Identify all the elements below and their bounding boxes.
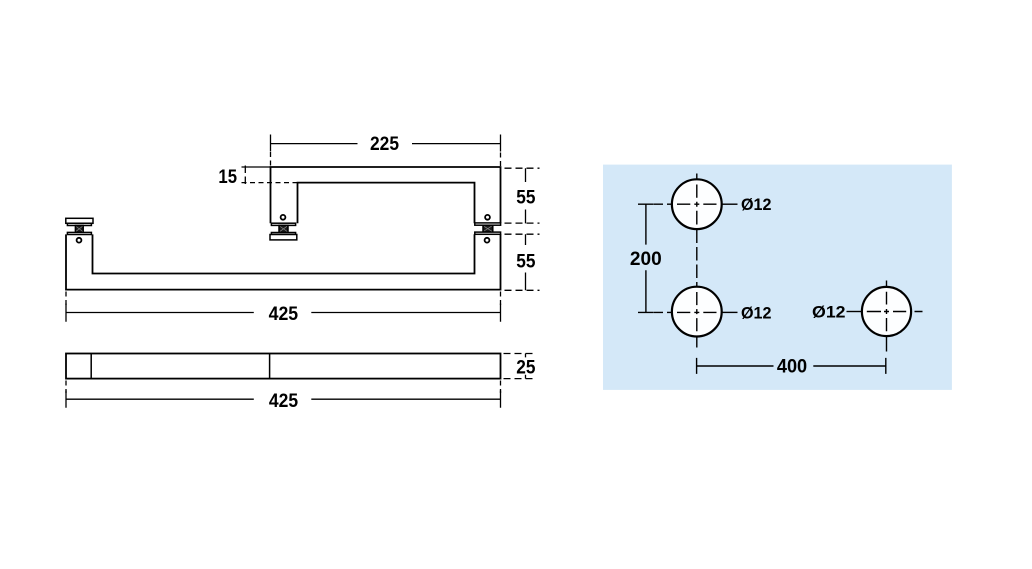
svg-text:425: 425 <box>269 390 298 412</box>
svg-text:55: 55 <box>516 186 535 208</box>
svg-text:Ø12: Ø12 <box>741 303 772 322</box>
svg-text:Ø12: Ø12 <box>741 195 772 214</box>
svg-text:Ø12: Ø12 <box>812 302 846 321</box>
svg-text:400: 400 <box>777 356 807 378</box>
svg-text:25: 25 <box>516 356 535 378</box>
svg-text:200: 200 <box>630 248 662 270</box>
svg-text:225: 225 <box>370 133 399 155</box>
svg-text:425: 425 <box>269 303 299 325</box>
svg-text:55: 55 <box>516 251 535 273</box>
svg-text:15: 15 <box>218 166 237 188</box>
